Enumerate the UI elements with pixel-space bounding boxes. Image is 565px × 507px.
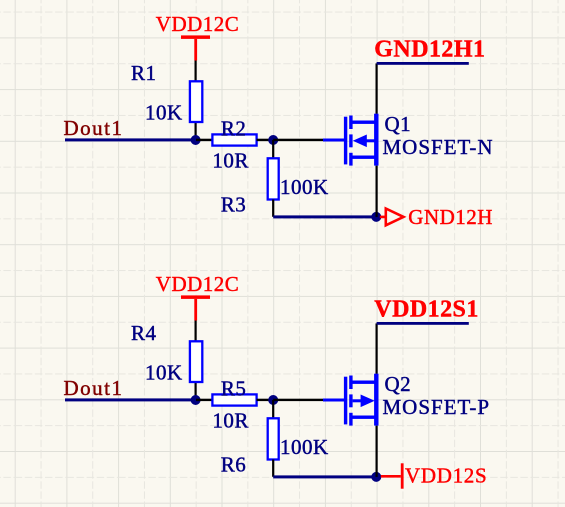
svg-text:Dout1: Dout1	[64, 376, 124, 400]
svg-text:Q2: Q2	[385, 372, 412, 396]
svg-text:Dout1: Dout1	[64, 116, 124, 140]
svg-text:R6: R6	[221, 453, 247, 477]
svg-text:MOSFET-N: MOSFET-N	[383, 135, 494, 159]
svg-text:100K: 100K	[280, 175, 329, 199]
svg-text:R3: R3	[221, 193, 247, 217]
svg-text:10K: 10K	[145, 101, 183, 125]
svg-text:VDD12S1: VDD12S1	[374, 297, 479, 323]
svg-text:10R: 10R	[212, 149, 249, 173]
svg-text:100K: 100K	[280, 435, 329, 459]
svg-text:GND12H: GND12H	[408, 205, 493, 229]
svg-text:VDD12C: VDD12C	[156, 12, 240, 36]
svg-text:10K: 10K	[145, 361, 183, 385]
svg-text:R2: R2	[221, 117, 247, 141]
svg-text:10R: 10R	[212, 409, 249, 433]
svg-text:VDD12S: VDD12S	[405, 463, 487, 487]
svg-text:MOSFET-P: MOSFET-P	[383, 395, 491, 419]
svg-text:Q1: Q1	[385, 112, 412, 136]
svg-text:R4: R4	[131, 321, 157, 345]
svg-text:GND12H1: GND12H1	[374, 37, 485, 63]
svg-text:R1: R1	[131, 61, 157, 85]
svg-text:VDD12C: VDD12C	[156, 272, 240, 296]
svg-text:R5: R5	[221, 377, 247, 401]
